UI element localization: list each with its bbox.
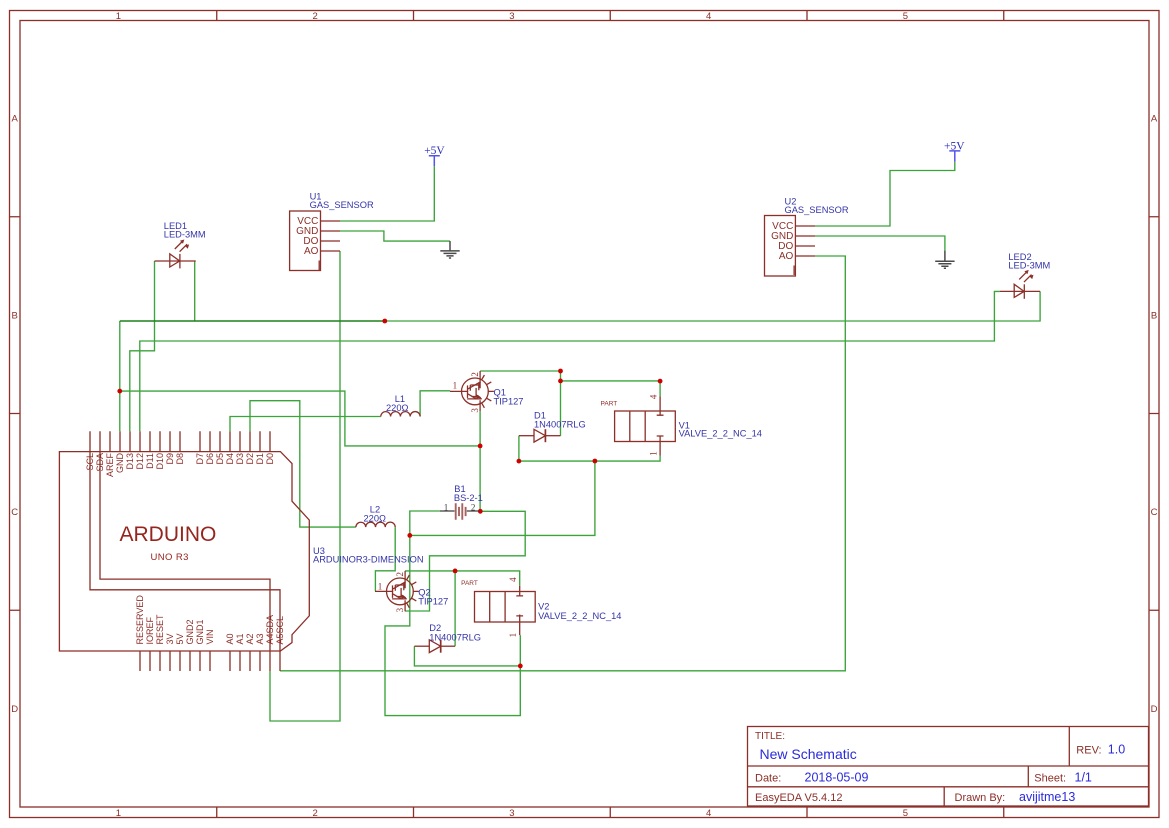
- svg-text:AO: AO: [304, 246, 319, 257]
- svg-text:2: 2: [470, 372, 480, 377]
- U1 pin DO: [321, 240, 341, 242]
- svg-text:C: C: [11, 507, 18, 518]
- svg-text:ARDUINO: ARDUINO: [120, 523, 217, 546]
- wire D2 to L2: [250, 401, 356, 527]
- LED2 value label: [1008, 261, 1050, 271]
- svg-text:1: 1: [453, 380, 458, 390]
- svg-text:220Ω: 220Ω: [364, 514, 387, 524]
- svg-text:1.0: 1.0: [1108, 743, 1125, 757]
- svg-text:1: 1: [116, 11, 121, 22]
- junction Q2 pin2 net / D2 cathode branch: [453, 569, 458, 574]
- battery B1 BS-2-1: [440, 503, 479, 519]
- title block Drawn By: label: [955, 792, 1006, 804]
- frame column numbers top: [116, 11, 908, 22]
- svg-text:D: D: [11, 704, 18, 715]
- svg-text:Sheet:: Sheet:: [1034, 772, 1066, 784]
- svg-text:1/1: 1/1: [1075, 770, 1092, 784]
- svg-text:D4: D4: [225, 453, 235, 465]
- Arduino top pin labels: [85, 453, 275, 478]
- V1 pin number 4: [649, 394, 659, 399]
- wire B1 pin1 to junction: [410, 511, 440, 535]
- L2 value label 220 ohm: [364, 514, 387, 524]
- LED1 diode symbol: [155, 240, 196, 269]
- svg-text:5V: 5V: [175, 633, 185, 644]
- svg-text:AO: AO: [779, 251, 794, 262]
- svg-text:D1: D1: [255, 453, 265, 465]
- Arduino internal link SCL to A5SCL: [90, 452, 280, 651]
- svg-text:1: 1: [378, 581, 383, 591]
- wire U1 AO to A4SDA: [270, 251, 340, 721]
- L1 reference label: [395, 394, 405, 404]
- svg-text:LED-3MM: LED-3MM: [164, 230, 206, 240]
- frame row letters left: [11, 114, 18, 715]
- Q2 value label: [418, 597, 448, 607]
- svg-text:3: 3: [395, 607, 405, 612]
- svg-text:2: 2: [312, 808, 317, 819]
- Arduino internal link SDA to A4SDA: [100, 452, 270, 651]
- wire Q2 pin2 to V2 pin4: [405, 571, 520, 586]
- svg-text:EasyEDA V5.4.12: EasyEDA V5.4.12: [755, 792, 842, 804]
- svg-text:1: 1: [116, 808, 121, 819]
- title block EasyEDA version: [755, 792, 842, 804]
- svg-text:D7: D7: [195, 453, 205, 465]
- svg-text:C: C: [1151, 507, 1158, 518]
- V2 value label: [538, 611, 621, 621]
- wire LED1 anode to D13: [130, 261, 155, 431]
- valve V1 VALVE_2_2_NC_14: [615, 397, 676, 456]
- V2 reference label: [538, 602, 549, 612]
- svg-text:IOREF: IOREF: [145, 616, 155, 644]
- svg-text:RESET: RESET: [155, 614, 165, 645]
- gas sensor U1 box: [290, 211, 340, 271]
- svg-text:GND: GND: [115, 453, 125, 474]
- U2 pin DO: [795, 245, 815, 247]
- svg-text:4: 4: [706, 11, 711, 22]
- D1 value label: [534, 420, 586, 430]
- U2 pin VCC: [795, 225, 815, 227]
- frame column ticks top: [217, 11, 1004, 21]
- D2 value label: [429, 632, 481, 642]
- wire L1 to Q1 pin1: [420, 391, 450, 417]
- frame row ticks right: [1149, 217, 1159, 611]
- LED2 reference label: [1008, 252, 1031, 262]
- V1 value label: [679, 429, 762, 439]
- wire branch to D2 cathode: [454, 571, 456, 646]
- wire branch down from valve bus to battery minus net: [410, 461, 595, 535]
- svg-text:GND2: GND2: [185, 619, 195, 644]
- svg-text:5: 5: [903, 11, 908, 22]
- svg-text:D0: D0: [265, 453, 275, 465]
- UNO R3 subtitle text: [151, 552, 189, 563]
- Q2 pin number 1: [378, 581, 383, 591]
- U1 pin GND: [321, 230, 341, 232]
- wire D1 anode down to valve bus: [518, 436, 520, 461]
- svg-text:TIP127: TIP127: [494, 397, 524, 407]
- svg-text:GAS_SENSOR: GAS_SENSOR: [785, 205, 849, 215]
- svg-text:PART: PART: [461, 580, 478, 587]
- diode D2 1N4007RLG: [414, 640, 455, 653]
- svg-text:GND1: GND1: [195, 619, 205, 644]
- svg-text:2: 2: [395, 572, 405, 577]
- U2 value label: [785, 205, 849, 215]
- title block title value: [760, 746, 857, 762]
- power +5V symbol (right, net to U2 VCC): [944, 140, 965, 161]
- svg-text:SCL: SCL: [85, 453, 95, 471]
- U1 pin VCC: [321, 220, 341, 222]
- U1 value label: [310, 200, 374, 210]
- svg-text:1: 1: [508, 633, 518, 638]
- svg-text:A: A: [1151, 114, 1158, 125]
- B1 value label: [454, 493, 483, 503]
- svg-text:ARDUINOR3-DIMENSION: ARDUINOR3-DIMENSION: [313, 555, 424, 565]
- ground symbol G2 (near U2): [935, 251, 954, 269]
- Arduino top pin stubs: [90, 431, 270, 451]
- U3 reference label: [313, 546, 325, 556]
- Q1 value label: [494, 397, 524, 407]
- U1 pin AO: [321, 250, 341, 252]
- U3 value label: [313, 555, 424, 565]
- title block Date: label: [755, 772, 781, 784]
- Q1 pin number 3: [470, 408, 480, 413]
- svg-text:New Schematic: New Schematic: [760, 746, 857, 762]
- junction B1 pin1 net: [407, 533, 412, 538]
- wire bus A overlapped segment: [120, 320, 385, 322]
- wire U1 GND to ground G1: [340, 231, 450, 241]
- title block TITLE: label: [755, 731, 785, 742]
- title block sheet value: [1075, 770, 1092, 784]
- V1 pin number 1: [649, 451, 659, 456]
- svg-text:D5: D5: [215, 453, 225, 465]
- wire U2 GND to ground G2: [815, 236, 945, 251]
- LED1 reference label: [164, 221, 187, 231]
- wire battery minus net down to V2 pin1 loop: [385, 535, 520, 715]
- svg-text:3: 3: [509, 11, 514, 22]
- svg-text:GAS_SENSOR: GAS_SENSOR: [310, 200, 374, 210]
- junction D2 anode / V2 pin1 net: [518, 664, 523, 669]
- V1 reference label: [679, 421, 690, 431]
- B1 pin number 1: [444, 502, 449, 512]
- title block outline: [748, 727, 1149, 807]
- wire U2 VCC to +5V: [815, 162, 955, 226]
- svg-text:TIP127: TIP127: [418, 597, 448, 607]
- svg-text:2: 2: [312, 11, 317, 22]
- svg-text:4: 4: [508, 577, 518, 582]
- junction B1 pin2: [478, 509, 483, 514]
- Arduino U3 board outline: [59, 452, 309, 651]
- gas sensor U2 box: [765, 216, 816, 277]
- wire D2 anode to junction: [414, 646, 520, 666]
- transistor Q2 TIP127: [375, 571, 419, 611]
- U2 pin AO: [795, 255, 815, 257]
- title block date value: [805, 770, 869, 784]
- wire B1 pin2 to Q2 pin3: [405, 511, 525, 611]
- svg-text:Drawn By:: Drawn By:: [955, 792, 1006, 804]
- svg-text:2018-05-09: 2018-05-09: [805, 770, 869, 784]
- B1 pin number 2: [471, 502, 476, 512]
- svg-text:A5SCL: A5SCL: [275, 616, 285, 645]
- Q2 pin number 3: [395, 607, 405, 612]
- D2 reference label: [429, 623, 441, 633]
- svg-text:D6: D6: [205, 453, 215, 465]
- U2 pin GND: [795, 235, 815, 237]
- svg-text:1: 1: [649, 451, 659, 456]
- title block Sheet: label: [1034, 772, 1066, 784]
- svg-text:A: A: [12, 114, 19, 125]
- junction Q1 pin2 corner: [558, 369, 563, 374]
- svg-text:+5V: +5V: [424, 145, 445, 157]
- Q1 reference label: [494, 387, 506, 397]
- wire branch to D1 cathode: [560, 381, 562, 436]
- svg-text:D11: D11: [145, 453, 155, 469]
- svg-text:D13: D13: [125, 453, 135, 470]
- wire bus C GND to Q1 pin3 net: [120, 391, 480, 446]
- frame column ticks bottom: [217, 807, 1004, 818]
- svg-text:BS-2-1: BS-2-1: [454, 493, 483, 503]
- svg-text:A2: A2: [245, 633, 255, 644]
- svg-text:4: 4: [649, 394, 659, 399]
- svg-text:B: B: [12, 311, 18, 322]
- wire LED1 cathode down to bus A: [194, 261, 196, 321]
- junction at GND pin / bus C: [117, 389, 122, 394]
- svg-text:1: 1: [444, 502, 449, 512]
- power +5V symbol (left, net to U1 VCC): [424, 145, 445, 166]
- title block author value: [1019, 790, 1075, 804]
- wire GND pin vertical (bus A left leg): [119, 321, 121, 431]
- svg-text:A3: A3: [255, 633, 265, 644]
- svg-text:VIN: VIN: [205, 629, 215, 644]
- svg-text:avijitme13: avijitme13: [1019, 790, 1075, 804]
- ARDUINO title text: [120, 523, 217, 546]
- svg-text:5: 5: [903, 808, 908, 819]
- svg-text:+5V: +5V: [944, 140, 965, 152]
- svg-text:220Ω: 220Ω: [386, 403, 409, 413]
- L1 value label 220 ohm: [386, 403, 409, 413]
- Q2 pin number 2: [395, 572, 405, 577]
- junction V1 pin4 corner: [658, 379, 663, 384]
- valve V2 VALVE_2_2_NC_14: [475, 586, 536, 635]
- Q2 reference label: [418, 587, 430, 597]
- V2 pin number 1: [508, 633, 518, 638]
- wire D4 to L1: [230, 417, 381, 432]
- svg-text:B: B: [1151, 311, 1157, 322]
- junction valve bus branch down: [593, 459, 598, 464]
- svg-text:A4SDA: A4SDA: [265, 615, 275, 645]
- frame row ticks left: [10, 217, 21, 611]
- title block REV: label: [1076, 745, 1101, 757]
- svg-text:D10: D10: [155, 453, 165, 470]
- U1 reference label: [310, 191, 322, 201]
- junction bus C at Q1 pin3 wire: [478, 444, 483, 449]
- B1 reference label: [454, 484, 465, 494]
- wire Q1 pin2 jog: [480, 371, 560, 381]
- svg-text:1N4007RLG: 1N4007RLG: [429, 632, 481, 642]
- transistor Q1 TIP127: [450, 371, 494, 411]
- U2 reference label: [785, 196, 797, 206]
- junction D1 anode / valve bus: [517, 459, 522, 464]
- svg-text:3V: 3V: [165, 633, 175, 644]
- ground symbol G1 (near U1): [440, 241, 459, 258]
- Q1 pin number 1: [453, 380, 458, 390]
- wire L2 to Q2 pin1: [375, 527, 395, 591]
- svg-text:REV:: REV:: [1076, 745, 1101, 757]
- svg-text:PART: PART: [601, 401, 618, 408]
- svg-text:D3: D3: [235, 453, 245, 465]
- V2 pin number 4: [508, 577, 518, 582]
- junction on bus A: [382, 319, 387, 324]
- frame column numbers bottom: [116, 808, 908, 819]
- svg-text:D8: D8: [175, 453, 185, 465]
- Q1 pin number 2: [470, 372, 480, 377]
- diode D1 1N4007RLG: [519, 429, 561, 442]
- V2 PART label: [461, 580, 478, 587]
- L2 reference label: [370, 504, 380, 514]
- svg-text:2: 2: [471, 502, 476, 512]
- LED1 value label: [164, 230, 206, 240]
- svg-text:D12: D12: [135, 453, 145, 470]
- wire +5V to U1 VCC: [340, 166, 434, 221]
- title block rev value: [1108, 743, 1125, 757]
- svg-text:D: D: [1151, 704, 1158, 715]
- Arduino bottom pin stubs: [140, 651, 280, 671]
- svg-text:D9: D9: [165, 453, 175, 465]
- wire bus D A5SCL to U2 AO: [280, 256, 845, 671]
- svg-text:3: 3: [470, 408, 480, 413]
- LED2 diode symbol: [1000, 270, 1040, 299]
- frame row letters right: [1151, 114, 1158, 715]
- D1 reference label: [534, 410, 546, 420]
- svg-text:3: 3: [509, 808, 514, 819]
- V1 PART label: [601, 401, 618, 408]
- svg-text:Date:: Date:: [755, 772, 781, 784]
- svg-text:1N4007RLG: 1N4007RLG: [534, 420, 586, 430]
- wire Q1 pin2 net to V1 pin4: [561, 381, 661, 397]
- Arduino bottom pin labels: [135, 595, 285, 645]
- svg-text:A0: A0: [225, 633, 235, 644]
- wire Q1 pin3 down to B1 pin2: [479, 411, 481, 511]
- wire bus B D12 to LED2 anode: [140, 291, 1000, 431]
- svg-text:VALVE_2_2_NC_14: VALVE_2_2_NC_14: [679, 429, 762, 439]
- inductor L2: [356, 522, 395, 527]
- svg-text:RESERVED: RESERVED: [135, 595, 145, 645]
- inductor L1: [381, 412, 420, 417]
- svg-text:4: 4: [706, 808, 711, 819]
- wire bus A right segment to LED2 cathode: [385, 291, 1040, 321]
- svg-text:UNO R3: UNO R3: [151, 552, 189, 563]
- svg-text:LED-3MM: LED-3MM: [1008, 261, 1050, 271]
- svg-text:SDA: SDA: [95, 453, 105, 472]
- svg-text:VALVE_2_2_NC_14: VALVE_2_2_NC_14: [538, 611, 621, 621]
- svg-text:D2: D2: [245, 453, 255, 465]
- junction Q1 pin2 net / D1 cathode branch: [558, 379, 563, 384]
- svg-text:AREF: AREF: [105, 453, 115, 478]
- svg-text:TITLE:: TITLE:: [755, 731, 785, 742]
- wire valve bus to V1 pin1: [519, 456, 660, 462]
- svg-text:A1: A1: [235, 633, 245, 644]
